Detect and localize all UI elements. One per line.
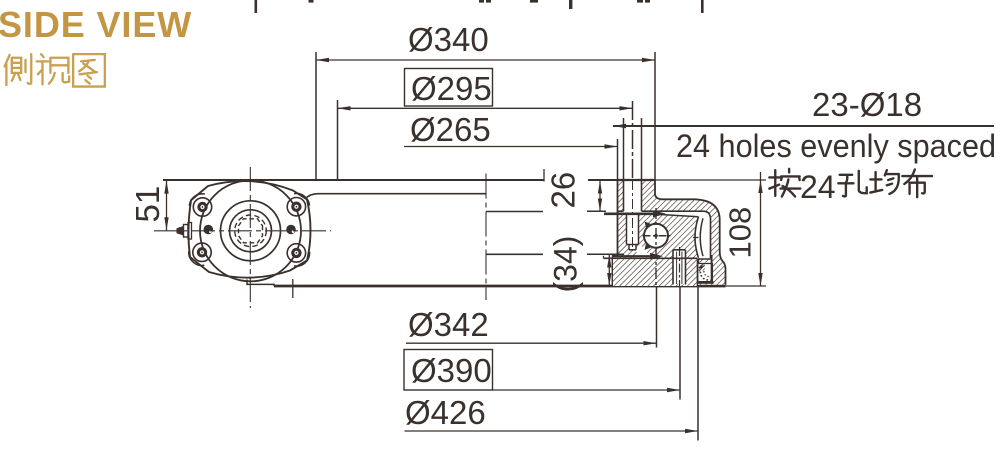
worm horizontal centerline (154, 230, 331, 232)
glyph 侧 (5, 54, 32, 85)
svg-text:SIDE VIEW: SIDE VIEW (0, 4, 192, 45)
crescent pitch tick (693, 237, 699, 239)
band inner corner outline (703, 211, 711, 259)
dim Ø295 box and text (405, 69, 493, 107)
ball (644, 224, 668, 248)
thread slot white upper (627, 214, 639, 245)
gear ring hatched (618, 214, 699, 258)
housing band and foot hatched (642, 194, 726, 285)
spline bore dashed circle (235, 215, 267, 247)
ball race wedges (645, 222, 651, 228)
grease nipple (184, 225, 189, 238)
gear tooth crescent left arc (695, 217, 699, 258)
mount slot edges (673, 250, 686, 285)
plate bottom face line (618, 210, 704, 212)
bolt TL (193, 198, 211, 216)
dim Ø340 line (316, 59, 655, 61)
band outline top (655, 194, 726, 285)
svg-text:(34): (34) (548, 236, 584, 293)
top extension line to 108 dim (655, 179, 766, 181)
bolt hole 23-Ø18 white (624, 180, 642, 211)
flange circle r30 (221, 201, 281, 261)
ball raceway white (643, 223, 668, 248)
svg-text:108: 108 (723, 207, 758, 259)
ball crosshair (643, 235, 671, 237)
raceway arrow lower (612, 255, 652, 257)
worm wheel rim top edge (486, 211, 543, 213)
dim Ø265 extension line (617, 139, 619, 180)
ring gap line (604, 257, 698, 259)
glyph 孔 (838, 171, 866, 197)
lower ring hatched (612, 258, 698, 286)
svg-text:26: 26 (545, 172, 582, 209)
top cropped remnant marks (255, 0, 704, 13)
leader 23-Ø18 (613, 125, 994, 127)
seal dot (700, 265, 703, 268)
body bottom thick line (274, 285, 726, 288)
mount slot white lower (673, 250, 686, 284)
label 按24孔均布 (hand glyphs) (769, 169, 932, 205)
seal dotted lip (700, 272, 710, 281)
slewing centerline (485, 174, 487, 301)
bolt BR (287, 244, 305, 262)
tick at x=292.8 crossing bottom line (292, 279, 294, 298)
svg-text:23-Ø18: 23-Ø18 (812, 86, 922, 123)
svg-text:Ø340: Ø340 (408, 21, 489, 58)
bolt TR (287, 198, 305, 216)
seal lip step (613, 256, 618, 259)
tick at x=544 crossing top line (543, 169, 545, 182)
ring top face thick (618, 179, 656, 181)
bottom extension line to 108 dim (722, 285, 766, 287)
seal hatched corner (699, 264, 705, 271)
dim Ø340 arrows (316, 58, 655, 62)
dim Ø265 arrow (605, 144, 618, 148)
leader 23-Ø18 arrow (613, 124, 626, 128)
glyph 图 (73, 54, 105, 86)
glyph 布 (902, 169, 932, 197)
retainer plate hatched (618, 180, 656, 211)
mount hole centerline (679, 247, 681, 286)
svg-text:Ø390: Ø390 (411, 352, 492, 389)
side screw left (204, 225, 214, 235)
body second top line with fillet (305, 194, 486, 199)
worm vertical centerline (249, 167, 251, 308)
thread slot edges (627, 214, 639, 250)
body bottom step line (247, 280, 274, 287)
svg-text:Ø295: Ø295 (411, 70, 492, 107)
bore line (617, 180, 619, 256)
dim Ø295 arrows (338, 106, 633, 110)
svg-text:Ø426: Ø426 (405, 394, 486, 431)
ring OD line (654, 180, 656, 194)
foot top edge (699, 259, 711, 263)
glyph 按 (769, 169, 800, 197)
dim Ø340 extension lines (316, 52, 655, 180)
glyph 视 (37, 54, 69, 84)
gear top edge (648, 214, 699, 217)
seal pocket right edge heavy (711, 255, 713, 282)
worm housing flange outline (188, 181, 310, 278)
svg-text:Ø342: Ø342 (408, 306, 489, 343)
side screw right (286, 225, 296, 235)
flange boss circle (200, 180, 301, 281)
dim Ø265 line (404, 146, 618, 148)
hole edge extension lines 23-Ø18 (624, 118, 642, 180)
bolt circle centerline (632, 180, 634, 250)
dim Ø295 extension lines (337, 100, 339, 180)
seal dark bottom (698, 281, 714, 284)
title 侧视图 (hand glyphs) (5, 54, 105, 86)
gear tooth crescent right arc (700, 218, 703, 256)
glyph 均 (870, 170, 898, 194)
svg-text:51: 51 (129, 186, 166, 223)
svg-text:24 holes evenly spaced: 24 holes evenly spaced (676, 128, 996, 164)
dim Ø295 line (338, 107, 633, 109)
mount slot thread lines (677, 252, 682, 285)
bolt lug arcs (189, 194, 310, 267)
dim Ø390 box (404, 350, 493, 391)
bolt BL (193, 243, 211, 261)
svg-text:Ø265: Ø265 (410, 111, 491, 148)
worm wheel rim bottom edge (486, 253, 543, 255)
main body top face line (163, 179, 618, 181)
svg-text:24: 24 (800, 169, 836, 205)
raceway arrow upper (604, 213, 656, 216)
bolt hole edges (624, 180, 642, 211)
spline bore dashed octagon (239, 219, 263, 243)
flange circle r21 (230, 210, 272, 252)
seal pocket outline (698, 264, 713, 282)
